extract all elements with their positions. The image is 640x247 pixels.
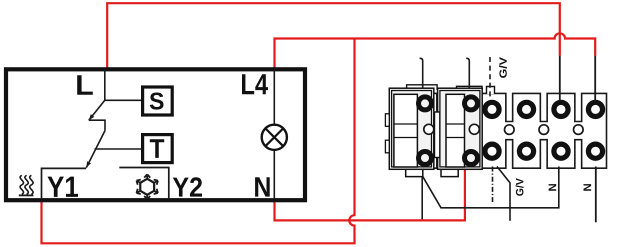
wire: red from Y1 down, along bottom, up at x=354.5 with hop over N wire, joining L4 net <box>42 39 355 244</box>
terminal 5 screws <box>554 102 568 158</box>
earth drop wire with slant below terminal 3 <box>497 167 510 221</box>
pos3 neck <box>487 87 495 95</box>
label L <box>77 75 93 95</box>
black continuation of red wire into terminal 6 <box>594 56 596 101</box>
lamp (indicator) circle with X <box>262 125 287 150</box>
label N (below terminal 6) <box>584 184 592 191</box>
plug connector 2 on position 2 <box>435 88 483 169</box>
plug top tab 1 <box>407 85 438 90</box>
plug top tab 2 <box>457 86 483 90</box>
wire stub above terminal 2 <box>466 58 469 88</box>
snowflake symbol (cooling Y2) <box>136 174 157 199</box>
wire stub above terminal 1 <box>420 58 423 88</box>
wire: red net L4/Y1 (switched live) horizontal with hop over vertical at x=560 <box>275 33 596 67</box>
label G/V (top) <box>499 57 507 78</box>
wire below terminal 1 <box>421 177 423 220</box>
switch step link <box>89 120 105 130</box>
label L4 <box>242 74 268 94</box>
heating symbol (radiator waves) <box>19 175 34 195</box>
box S (switch S) <box>143 87 173 115</box>
terminal 3 screws <box>485 102 499 158</box>
label N (below, near terminal 5 jumper) <box>549 184 557 191</box>
label G/V (bottom) <box>516 178 524 196</box>
wire: to switch S <box>105 99 143 101</box>
strip web hole between positions 4-5 <box>539 125 549 135</box>
wire below terminal 6 <box>595 167 597 223</box>
label Y1 <box>48 177 79 197</box>
plug bottom tab 1 <box>406 168 423 177</box>
wire: L4 stub to lamp <box>273 69 275 125</box>
label Y2 <box>173 177 202 196</box>
box T (thermostat T) <box>143 135 173 163</box>
wire: lamp to N terminal <box>273 150 275 199</box>
plug connector 1 on position 1 <box>385 88 433 169</box>
thermostat enclosure box <box>6 69 305 200</box>
terminal strip outline (6 positions) <box>409 93 606 168</box>
terminal 4 screws <box>519 102 533 158</box>
label N <box>255 177 270 196</box>
wire: red net L (mains live, top) from thermostat terminal L to terminal block position 5 <box>107 3 560 67</box>
wire: to switch T <box>95 148 143 150</box>
black continuation of red L wire into terminal 5 <box>559 56 561 101</box>
sub-box right part <box>119 168 169 200</box>
terminal 6 screws <box>588 102 602 158</box>
wire: red net N from thermostat N down and right to terminal block position 2 (from below) <box>275 170 465 220</box>
dashed earth wire above terminal 3 <box>489 57 491 99</box>
plug bottom tab 2 <box>441 168 458 177</box>
dash-dot earth below terminal 3 <box>492 167 494 203</box>
switch lower blade <box>86 131 105 168</box>
switch upper blade <box>89 100 105 120</box>
strip web hole between positions 3-4 <box>505 125 515 135</box>
jumper from terminal 1 to terminal 5 below the strip <box>423 167 559 208</box>
sub-box around Y1 / Y2 outputs (left part) <box>42 168 87 199</box>
strip web hole between positions 5-6 <box>574 125 584 135</box>
wire: L terminal stub inside box <box>104 69 106 100</box>
